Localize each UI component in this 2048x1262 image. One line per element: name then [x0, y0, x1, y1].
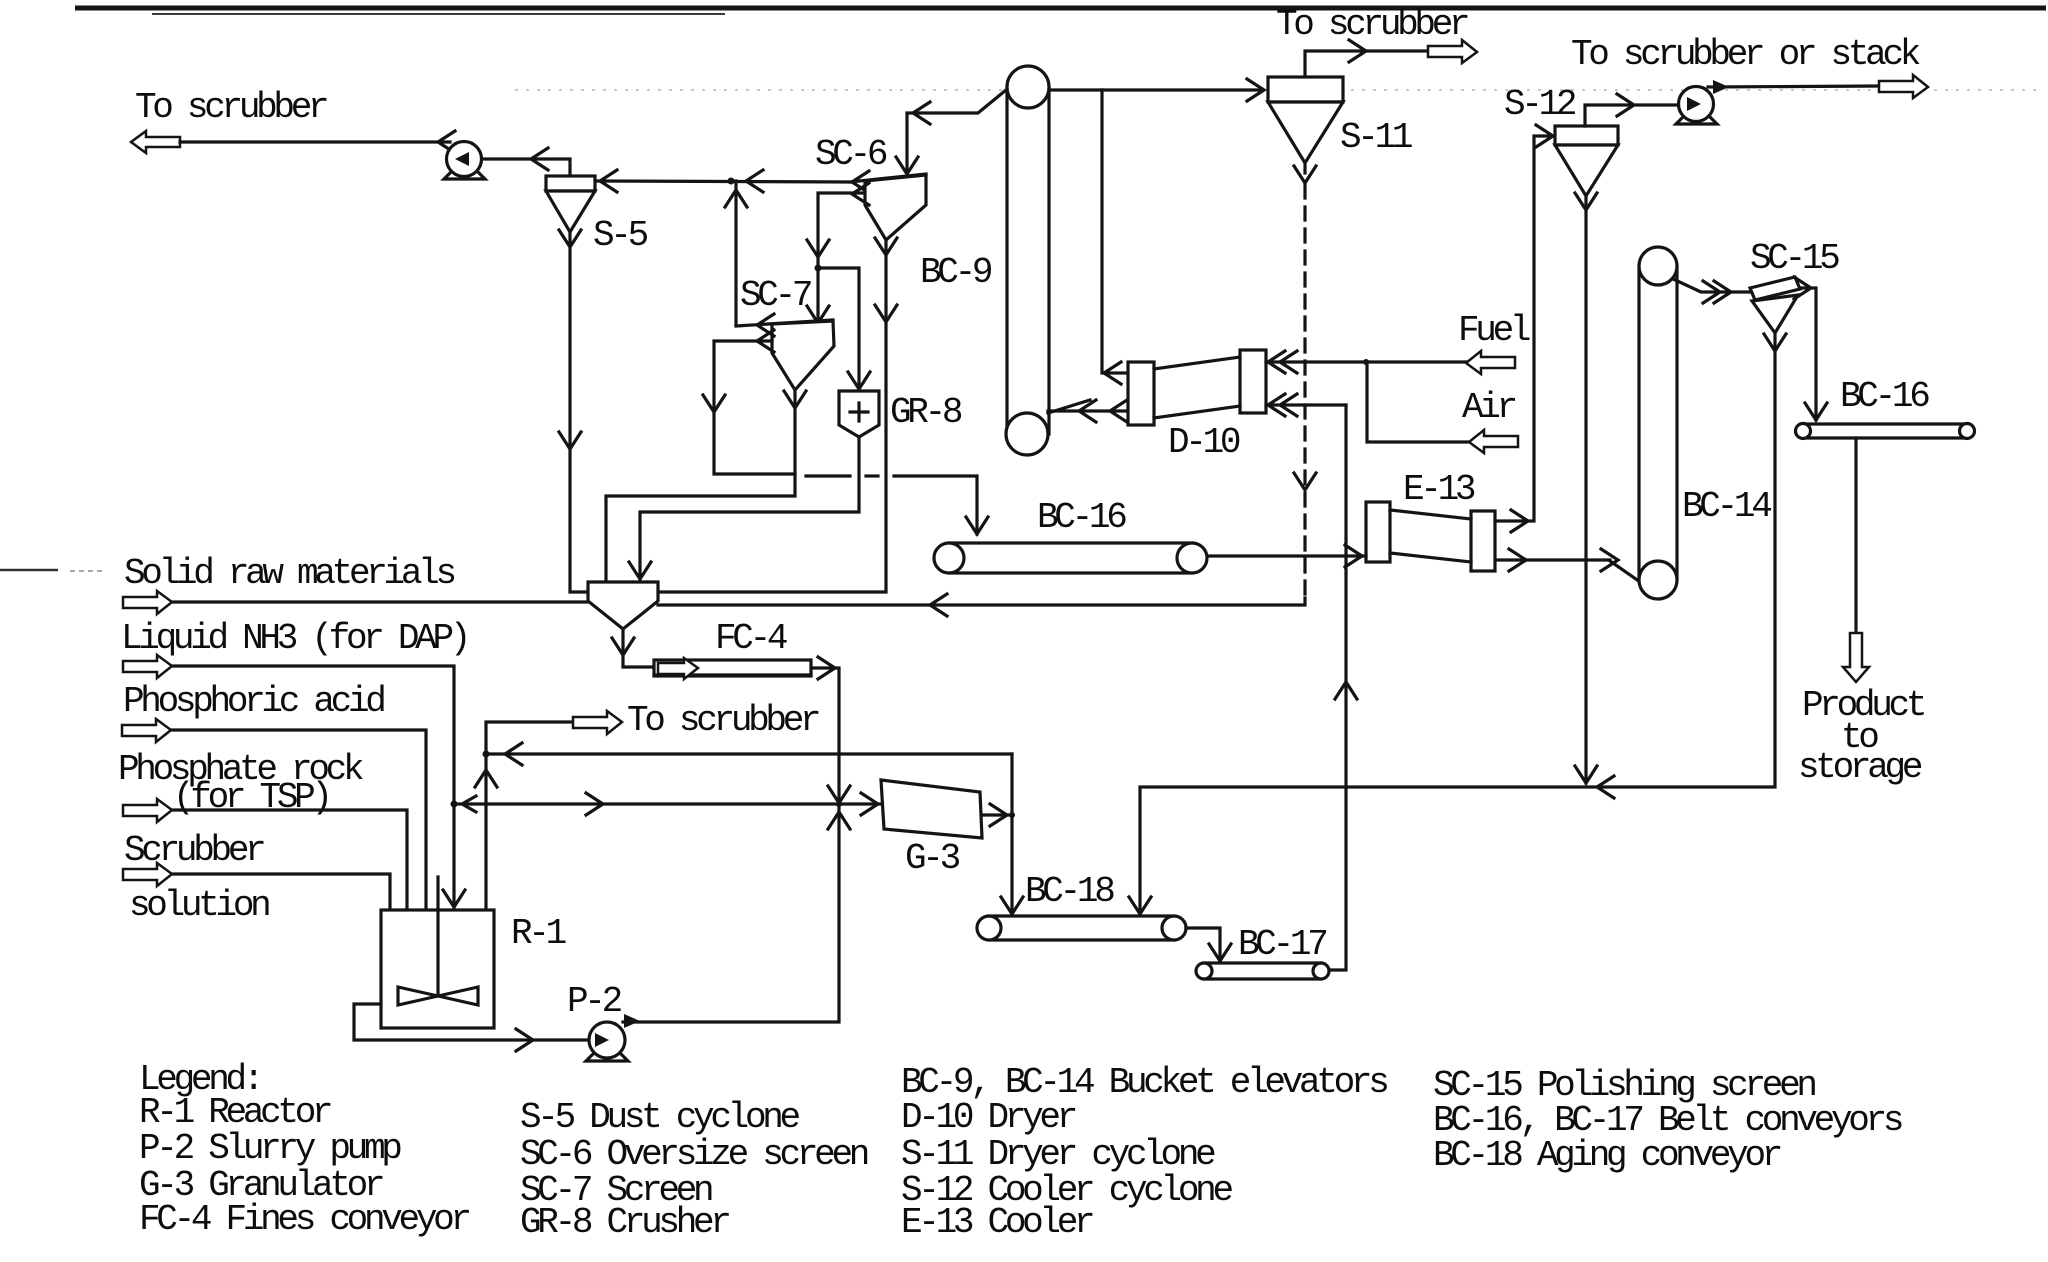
dryer D-10 [1128, 350, 1266, 425]
wire scrubber solution to reactor [172, 874, 390, 910]
arrowhead entering hopper from GR-8 (down) [629, 562, 651, 579]
stream arrow to scrubber (hollow, pointing left) [131, 131, 180, 153]
arrowhead below SC-6 tip (down) [875, 238, 897, 255]
junction node on SC-7 feed wire [815, 265, 822, 272]
arrowhead into pump (right) [516, 1029, 533, 1051]
fan F1 (top left blower) [444, 142, 485, 180]
wire G-3 discharge [982, 813, 1012, 816]
arrowhead on that wire (left) [852, 183, 869, 205]
wire riser from BC-17 up to D-10 [1329, 405, 1346, 970]
wire phosphoric acid to reactor [171, 730, 426, 910]
arrowhead entering SC-7 deck (down) [807, 306, 829, 323]
screen SC-7 [736, 320, 834, 390]
wire P-2 discharge up to mixing junction [623, 807, 839, 1022]
wire air line joining fuel [1367, 362, 1469, 442]
cyclone S-11 [1268, 77, 1343, 163]
svg-text:SC-7: SC-7 [740, 275, 811, 316]
svg-text:Phosphoric acid: Phosphoric acid [123, 681, 384, 722]
arrowhead at S-5 inlet (left) [600, 170, 617, 192]
junction node G-3 outlet [1009, 812, 1015, 818]
arrowhead on chute (left) [913, 102, 930, 124]
cyclone S-12 [1555, 126, 1618, 196]
wire G-3 outlet junction: vent up, product down to BC-18 [1010, 754, 1013, 914]
cooler E-13 [1366, 502, 1495, 571]
svg-text:FC-4: FC-4 [715, 618, 787, 659]
belt conveyor BC-16 middle [934, 543, 1207, 573]
fines conveyor FC-4 [654, 658, 811, 679]
wire branch junction to GR-8 crusher [818, 268, 859, 391]
wire SC-7 left recycle down [714, 341, 795, 474]
wire solid raw materials to hopper [172, 600, 588, 603]
arrowhead after G-3 (right) [990, 804, 1007, 826]
wire junction down to SC-7 screen deck [734, 181, 737, 325]
wire BC-18 discharge to BC-17 [1186, 928, 1220, 961]
stream arrow phosphoric acid (hollow right) [122, 719, 171, 742]
stream arrow liquid NH3 (hollow right) [123, 655, 172, 678]
arrowhead on riser (up) [1335, 682, 1357, 699]
wire G-3 vent back to riser [486, 752, 1012, 755]
arrowhead below S-12 tip (down) [1575, 193, 1597, 210]
svg-text:(for TSP): (for TSP) [173, 777, 329, 818]
arrowhead into G-3 (right) [861, 793, 878, 815]
arrowhead on recycle wire (left) [757, 330, 774, 352]
stream arrow product (hollow down) [1843, 633, 1869, 682]
arrowhead mid feed (right) [586, 793, 603, 815]
arrowhead below S-11 tip (down) [1294, 166, 1316, 183]
svg-text:BC-17: BC-17 [1238, 924, 1326, 965]
arrowhead on vent wire (left) [531, 148, 548, 170]
granulator G-3 [881, 780, 982, 838]
arrowhead on recycle line (left) [1597, 776, 1614, 798]
wire phosphate rock to reactor [172, 810, 407, 910]
arrowhead into duct riser (left) [1104, 362, 1121, 384]
svg-text:S-5 Dust cyclone: S-5 Dust cyclone [520, 1097, 800, 1138]
arrowhead into junction (down) [828, 786, 850, 803]
wire SC-6 oversize underflow to hopper [658, 240, 886, 592]
wire reactor outlet to P-2 [354, 1004, 588, 1040]
arrowhead on recycle downcomer (down) [703, 395, 725, 412]
dashed wire to BC-16 conveyor [806, 476, 988, 534]
arrowhead below S-5 tip (down) [559, 230, 581, 247]
arrowhead entering GR-8 (down) [848, 372, 870, 389]
arrowhead onto BC-18 (down) [1129, 897, 1151, 914]
svg-text:BC-16: BC-16 [1037, 497, 1126, 538]
arrowhead into S-11 (right) [1247, 79, 1264, 101]
junction node on fines wire [728, 178, 735, 185]
arrowhead near SC-6 on fines wire (left) [852, 171, 869, 193]
svg-text:D-10: D-10 [1168, 422, 1240, 463]
arrowheads on product wire (right, two) [1509, 549, 1526, 571]
arrowhead into S-12 (right) [1536, 125, 1553, 147]
wire FC-4 discharge to mixing junction [811, 668, 839, 804]
arrowhead onto BC-18 (down) [1001, 897, 1023, 914]
stream arrow Air (hollow left) [1469, 430, 1518, 453]
wire recycle return to hopper [658, 598, 1305, 605]
wire SC-6 second outlet going left and down to SC-7 [818, 193, 864, 323]
arrowhead mid underflow (down) [1294, 473, 1316, 490]
junction node on riser [483, 751, 490, 758]
svg-text:P-2 Slurry pump: P-2 Slurry pump [139, 1128, 401, 1169]
svg-text:To scrubber: To scrubber [1276, 4, 1468, 45]
wire fuel line into D-10 [1266, 360, 1466, 363]
arrowhead on riser (up) [475, 770, 497, 787]
svg-text:E-13: E-13 [1403, 469, 1475, 510]
wire S-12 underflow down to recycle line [1584, 196, 1587, 783]
arrowhead below SC-15 tip (down) [1764, 334, 1786, 351]
wire D-10 lower entry from riser [1266, 403, 1346, 406]
svg-text:SC-6 Oversize screen: SC-6 Oversize screen [520, 1134, 868, 1175]
wire SC-15 oversize to BC-16 conveyor [1800, 288, 1816, 420]
junction node FC-4/P-2/G-3 [836, 801, 842, 807]
stream arrow scrubber solution (hollow right) [123, 863, 172, 886]
svg-text:solution: solution [129, 885, 269, 926]
crusher GR-8 [839, 391, 879, 437]
bucket elevator BC-14 [1639, 247, 1677, 599]
svg-text:E-13 Cooler: E-13 Cooler [901, 1202, 1093, 1243]
svg-text:Air: Air [1462, 387, 1516, 428]
stream arrow solid raw materials (hollow right) [123, 591, 172, 614]
svg-text:P-2: P-2 [567, 981, 622, 1022]
svg-text:S-12: S-12 [1504, 84, 1576, 125]
wire BC-9 discharge chute to SC-6 [907, 90, 1006, 176]
belt conveyor BC-17 [1196, 963, 1329, 979]
dashed wire S-11 underflow [1303, 163, 1306, 173]
svg-text:S-11 Dryer cyclone: S-11 Dryer cyclone [901, 1134, 1215, 1175]
svg-text:BC-18: BC-18 [1025, 871, 1114, 912]
arrowhead after pump (right) [624, 1014, 640, 1028]
svg-text:To scrubber: To scrubber [627, 700, 819, 741]
arrowhead (right) [1713, 80, 1729, 94]
wire S-5 vent to fan F1 [482, 159, 570, 176]
wire E-13 product to BC-14 boot [1495, 558, 1610, 561]
wire GR-8 discharge down then left to hopper [640, 437, 859, 582]
arrowhead on G-3 vent (left) [505, 743, 522, 765]
arrowhead mid S-5 downcomer (down) [559, 432, 581, 449]
wire S-11 vent [1305, 51, 1428, 77]
svg-text:S-5: S-5 [593, 215, 648, 256]
arrowhead at bottom of S-12 underflow (down) [1575, 766, 1597, 783]
svg-text:BC-18 Aging conveyor: BC-18 Aging conveyor [1433, 1135, 1781, 1176]
arrowhead on return wire (left) [930, 594, 947, 616]
arrowhead entering SC-6 deck (down) [896, 157, 918, 174]
arrowheads (right, double) [1703, 281, 1720, 303]
arrowheads on boot wire (left) [1079, 400, 1096, 422]
wire BC-14 discharge to SC-15 [1673, 279, 1750, 292]
small arrowhead into NH3 junction (left) [462, 796, 476, 812]
screen SC-6 [850, 174, 926, 240]
svg-text:FC-4 Fines conveyor: FC-4 Fines conveyor [139, 1199, 469, 1240]
arrowhead onto BC-17 (down) [1209, 944, 1231, 961]
arrowhead onto BC-16 (down) [1805, 403, 1827, 420]
screen SC-15 [1750, 277, 1800, 333]
arrowhead on SC-7 deck left (left) [757, 314, 774, 336]
arrowhead on vent (right) [1349, 40, 1366, 62]
arrowhead on fines wire at junction (left) [746, 170, 763, 192]
svg-text:GR-8: GR-8 [890, 392, 962, 433]
wire S-5 underflow down to hopper [570, 232, 588, 592]
svg-text:BC-14: BC-14 [1682, 486, 1771, 527]
svg-text:GR-8 Crusher: GR-8 Crusher [520, 1202, 729, 1243]
faint horizontal scan line y90 [515, 89, 2040, 91]
svg-text:Solid raw materials: Solid raw materials [124, 553, 454, 594]
wire S-12 vent to fan F2 [1585, 105, 1680, 126]
arrowhead on vent (right) [1617, 94, 1634, 116]
wire BC-9 boot feed from D-10 [1048, 409, 1128, 412]
cyclone S-5 [546, 176, 595, 232]
arrowhead after FC-4 (right) [818, 657, 835, 679]
fan F2 (cooler exhaust blower) [1676, 87, 1717, 125]
wire SC-15 fines down to recycle line [1140, 333, 1775, 914]
svg-text:SC-15: SC-15 [1750, 238, 1839, 279]
svg-text:R-1: R-1 [511, 913, 566, 954]
reactor R-1 [381, 877, 494, 1028]
top border rule [75, 6, 2046, 11]
svg-text:Fuel: Fuel [1458, 310, 1530, 351]
svg-text:Liquid NH3 (for DAP): Liquid NH3 (for DAP) [121, 618, 467, 659]
stream arrow Fuel (hollow left) [1466, 351, 1515, 374]
stream arrow to scrubber (hollow right) [1428, 40, 1477, 63]
bucket elevator BC-9 [1006, 66, 1049, 455]
arrowhead into E-13 (right) [1345, 545, 1362, 567]
duct D-10 to S-11 along top [1050, 90, 1128, 373]
belt conveyor BC-18 [977, 916, 1186, 940]
svg-text:To scrubber: To scrubber [135, 87, 327, 128]
svg-text:To scrubber or stack: To scrubber or stack [1571, 34, 1920, 75]
arrowheads into D-10 lower (left, double) [1268, 394, 1285, 416]
svg-text:storage: storage [1798, 747, 1922, 788]
arrowhead on wire (left) [438, 131, 455, 153]
junction node fuel/air [1363, 359, 1369, 365]
svg-text:S-11: S-11 [1340, 117, 1412, 158]
svg-text:SC-6: SC-6 [815, 134, 887, 175]
arrowhead mid down [807, 240, 829, 257]
stream arrow phosphate rock (hollow right) [123, 799, 172, 822]
arrowhead on E-13 gas outlet (right) [1511, 510, 1528, 532]
wire reactor vent riser [486, 722, 573, 910]
wire E-13 gas to S-12 [1495, 136, 1548, 521]
wire hopper outlet to FC-4 [623, 629, 654, 667]
arrowhead into reactor (down) [443, 890, 465, 907]
svg-text:G-3: G-3 [905, 838, 960, 879]
arrowhead below SC-7 tip (down) [784, 391, 806, 408]
feed hopper [588, 582, 658, 629]
svg-text:R-1 Reactor: R-1 Reactor [139, 1092, 331, 1133]
belt conveyor BC-16 right [1796, 424, 1975, 439]
junction node NH3/G-3 feed [451, 801, 458, 808]
pump P-2 [586, 1022, 628, 1061]
svg-text:BC-16: BC-16 [1840, 376, 1929, 417]
wire BC-16 to product storage [1854, 438, 1857, 633]
wire G-3 feed line [454, 802, 881, 805]
svg-text:D-10 Dryer: D-10 Dryer [901, 1097, 1076, 1138]
stream arrow to scrubber middle (hollow right) [573, 711, 622, 734]
wire fan F2 to stack arrow [1708, 86, 1879, 87]
arrowhead into junction (up) [828, 812, 850, 829]
svg-text:Scrubber: Scrubber [124, 830, 264, 871]
left margin dash [0, 569, 58, 572]
arrowheads into D-10 (left, double) [1268, 351, 1285, 373]
wire SC-6 fines to S-5 inlet [595, 181, 852, 182]
wire BC-16 conveyor to E-13 [1207, 554, 1366, 557]
arrowhead pointing up into junction [725, 190, 747, 207]
wire SC-7 underflow down then left to hopper [606, 390, 795, 582]
svg-text:BC-9: BC-9 [920, 252, 992, 293]
wire NH3 to reactor [172, 666, 454, 910]
arrowhead mid SC-6 underflow (down) [875, 305, 897, 322]
stream arrow to scrubber or stack (hollow right) [1879, 75, 1928, 98]
wire fan F1 outlet to scrubber arrow [180, 140, 450, 143]
arrowhead on oversize wire (right) [1794, 277, 1811, 299]
arrowhead below hopper (down) [612, 638, 634, 655]
